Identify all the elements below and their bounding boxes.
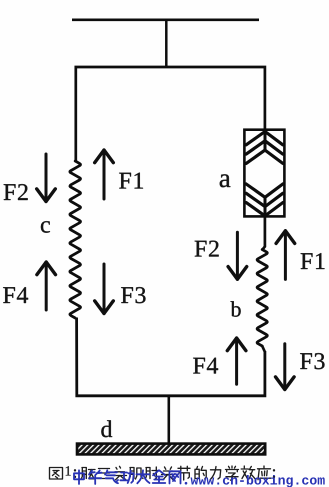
force arrow F3 left bbox=[95, 264, 114, 314]
caption text: 图 1：肱三头肌肘关节的力学效应： bbox=[50, 468, 63, 480]
spring c bbox=[70, 161, 81, 318]
force arrow F2 right bbox=[228, 232, 247, 279]
wire frame top and side rails bbox=[76, 67, 265, 162]
watermark text: 中华气功大全网.www.cn-boxing.com bbox=[74, 470, 84, 484]
force arrow F2 left bbox=[37, 154, 56, 202]
force arrow F1 left bbox=[95, 150, 114, 199]
force arrow F4 right bbox=[227, 338, 246, 384]
force arrow F4 left bbox=[37, 262, 56, 310]
force arrow F1 right bbox=[276, 231, 295, 280]
wire below spring b bbox=[262, 346, 265, 352]
wire top stub bbox=[165, 20, 168, 67]
wire right rail a to b bbox=[262, 216, 265, 250]
label d bbox=[101, 420, 112, 437]
label a bbox=[220, 174, 231, 187]
force arrow F3 right bbox=[276, 344, 295, 390]
label F2 bbox=[4, 184, 28, 200]
label F4 bbox=[193, 358, 218, 374]
label F3 bbox=[300, 353, 324, 369]
label F4 bbox=[3, 287, 28, 303]
label F2 bbox=[195, 241, 219, 257]
label F1 bbox=[119, 173, 143, 189]
wire top bar bbox=[72, 18, 259, 21]
label c bbox=[41, 221, 50, 233]
muscle element a bbox=[244, 130, 284, 218]
label b bbox=[231, 301, 241, 316]
label F1 bbox=[301, 253, 325, 269]
label F3 bbox=[121, 287, 145, 303]
wire bottom connector bbox=[168, 396, 171, 444]
wire left lower rail and bottom bbox=[77, 318, 265, 396]
spring b bbox=[257, 250, 267, 347]
